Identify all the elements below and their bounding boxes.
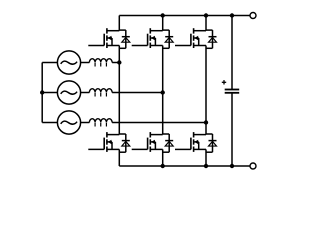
wire neutral to source Va xyxy=(42,62,57,64)
node phase a junction xyxy=(117,60,121,64)
body diode D2 xyxy=(163,30,174,48)
wire drain Q3 to positive bus xyxy=(205,16,207,31)
wire neutral to source Vb xyxy=(42,92,57,94)
transistor Q3 xyxy=(175,28,206,48)
wire drain Q1 to positive bus xyxy=(118,16,120,31)
wire source Q1 to phase node xyxy=(118,46,120,63)
AC voltage source Va xyxy=(57,51,80,74)
negative output terminal xyxy=(250,163,256,169)
wire source Q4 to negative bus xyxy=(118,149,120,166)
positive output terminal xyxy=(250,13,256,19)
wire source Vc to inductor Lc xyxy=(81,122,90,124)
wire to negative terminal xyxy=(232,165,250,167)
inductor Lb xyxy=(89,89,112,97)
AC voltage source Vb xyxy=(57,81,80,104)
transistor Q1 xyxy=(88,28,119,48)
wire source Q6 to negative bus xyxy=(205,149,207,166)
wire source Q2 to phase node xyxy=(162,46,164,93)
neutral bus wire xyxy=(41,63,43,123)
transistor Q5 xyxy=(132,132,163,152)
junction leg3 positive bus xyxy=(204,13,208,17)
AC voltage source Vc xyxy=(57,111,80,134)
body diode D1 xyxy=(119,30,130,48)
wire phase a to bridge leg 1 xyxy=(112,62,119,64)
wire neutral to source Vc xyxy=(42,122,57,124)
junction DC bus positive xyxy=(230,13,234,17)
wire positive bus to capacitor C1 xyxy=(231,16,233,90)
junction leg2 negative bus xyxy=(161,164,165,168)
wire phase c to bridge leg 3 xyxy=(112,122,206,124)
wire phase node to drain Q4 xyxy=(118,63,120,135)
wire source Q3 to phase node xyxy=(205,46,207,123)
body diode D4 xyxy=(119,134,130,152)
wire to positive terminal xyxy=(232,15,250,17)
wire capacitor C1 to negative bus xyxy=(231,93,233,166)
node phase b junction xyxy=(161,90,165,94)
wire source Q5 to negative bus xyxy=(162,149,164,166)
transistor Q2 xyxy=(132,28,163,48)
transistor Q6 xyxy=(175,132,206,152)
body diode D5 xyxy=(163,134,174,152)
inductor La xyxy=(89,59,112,67)
inductor Lc xyxy=(89,119,112,127)
transistor Q4 xyxy=(88,132,119,152)
wire source Vb to inductor Lb xyxy=(81,92,90,94)
wire phase b to bridge leg 2 xyxy=(112,92,163,94)
junction leg3 negative bus xyxy=(204,164,208,168)
polarity plus sign xyxy=(222,80,226,84)
junction DC bus negative xyxy=(230,164,234,168)
body diode D6 xyxy=(206,134,217,152)
negative DC bus wire xyxy=(119,165,232,167)
wire source Va to inductor La xyxy=(81,62,90,64)
wire phase node to drain Q5 xyxy=(162,93,164,135)
wire phase node to drain Q6 xyxy=(205,123,207,135)
node N junction xyxy=(40,90,44,94)
capacitor C1 xyxy=(225,90,240,93)
junction leg2 positive bus xyxy=(161,13,165,17)
positive DC bus wire xyxy=(119,15,232,17)
node phase c junction xyxy=(204,120,208,124)
wire drain Q2 to positive bus xyxy=(162,16,164,31)
body diode D3 xyxy=(206,30,217,48)
